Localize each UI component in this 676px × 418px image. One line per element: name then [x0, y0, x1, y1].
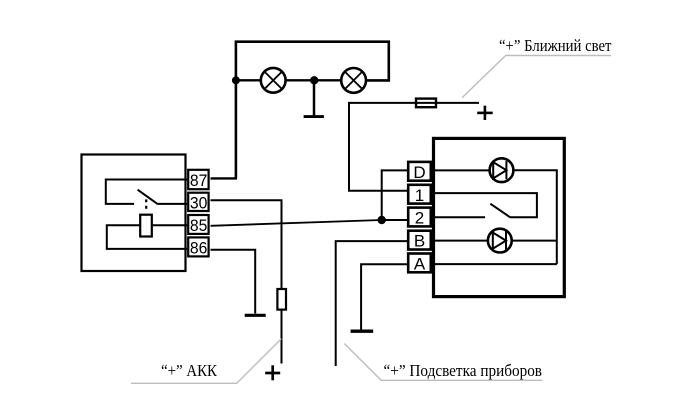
- plus symbol battery: [265, 365, 280, 380]
- wire lamp HL1 to lamp HL2: [286, 79, 342, 81]
- switch blade S1: [490, 204, 510, 218]
- relay terminal 30: [188, 193, 208, 211]
- LED HL4: [488, 229, 512, 253]
- svg-text:1: 1: [415, 186, 424, 205]
- svg-text:B: B: [414, 232, 425, 251]
- relay terminal 86: [188, 237, 208, 256]
- connector pin A: [408, 254, 431, 273]
- wire low-beam feed to connector pin 1: [349, 103, 479, 191]
- wire pin B to LED HL4: [434, 240, 488, 242]
- wire pin 1 to switch contact: [434, 193, 537, 217]
- relay K1 body: [82, 155, 186, 272]
- wire pin A to ground: [361, 264, 407, 330]
- instrument cluster U1 body: [434, 138, 565, 296]
- connector pin 1: [408, 185, 431, 204]
- node A junction dot: [232, 76, 240, 84]
- wire terminal 86 to ground: [211, 250, 256, 314]
- connector pin D: [408, 162, 431, 181]
- wire pin B to instrument lighting feed: [336, 241, 408, 366]
- wire relay blade to terminal 30: [158, 203, 187, 205]
- lamp HL2: [341, 68, 366, 93]
- wire node C to pin D: [382, 170, 408, 220]
- wire top rail from node A to lamp HL2 right side: [236, 42, 389, 179]
- wire LED HL4 to common rail: [512, 240, 557, 242]
- svg-text:85: 85: [190, 216, 208, 235]
- svg-text:86: 86: [190, 238, 208, 257]
- wire pin D to LED HL3: [434, 169, 490, 171]
- fuse F2: [277, 289, 286, 310]
- wire pin A to common rail: [434, 263, 557, 265]
- svg-text:“+” АКК: “+” АКК: [161, 361, 218, 380]
- ground GND1 below lamps: [304, 80, 324, 116]
- lamp HL1: [261, 68, 286, 93]
- svg-text:2: 2: [415, 209, 424, 228]
- relay switch contact blade: [138, 190, 158, 205]
- wire node C to pin 2: [382, 219, 408, 221]
- connector pin B: [408, 231, 431, 250]
- leader line battery label: [131, 339, 281, 384]
- svg-text:30: 30: [190, 193, 208, 212]
- ground GND2: [245, 314, 266, 317]
- relay terminal 85: [188, 215, 208, 234]
- node B junction dot: [310, 76, 318, 84]
- wire relay coil to terminal 86: [107, 225, 187, 249]
- svg-text:“+” Ближний свет: “+” Ближний свет: [499, 36, 612, 55]
- wire node A to lamp HL1: [236, 79, 261, 81]
- svg-text:87: 87: [190, 171, 208, 190]
- connector pin 2: [408, 208, 431, 227]
- wire relay terminal 85 to node C (diagonal): [211, 220, 382, 226]
- svg-text:“+” Подсветка приборов: “+” Подсветка приборов: [384, 361, 543, 380]
- plus symbol low beam: [477, 106, 493, 120]
- wire relay terminal 87 to node A: [211, 177, 238, 179]
- leader line instrument lighting label: [344, 344, 542, 381]
- ground GND3: [351, 330, 374, 333]
- relay actuator dotted link: [145, 199, 147, 209]
- relay coil: [140, 215, 152, 237]
- wire LED HL3 to common rail: [513, 170, 556, 264]
- wire pin 2 to switch: [434, 216, 485, 218]
- svg-text:A: A: [414, 255, 426, 274]
- node C junction dot: [378, 216, 386, 224]
- relay terminal 87: [188, 170, 208, 189]
- svg-text:D: D: [413, 163, 425, 182]
- fuse F1: [416, 99, 436, 108]
- wire relay coil to terminal 85: [152, 224, 187, 226]
- wire terminal 30 to battery plus: [211, 200, 282, 363]
- leader line low beam label: [462, 56, 611, 98]
- LED HL3: [490, 158, 514, 182]
- wire relay internal 87 branch: [106, 180, 187, 204]
